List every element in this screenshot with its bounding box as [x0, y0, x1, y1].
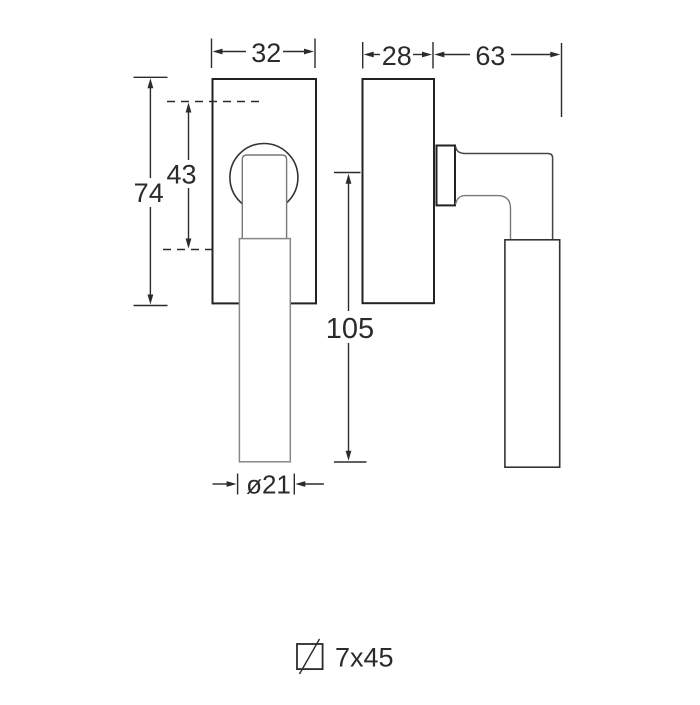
dimension 43 line and arrows [188, 110, 190, 241]
dimension o21 extension ticks [238, 474, 295, 495]
dimension 32 arrows and line [219, 51, 308, 53]
svg-text:7x45: 7x45 [335, 643, 394, 673]
handle grip side [505, 240, 560, 467]
handle arm side top outline [456, 147, 553, 240]
dimension 74 extension ticks [134, 77, 168, 305]
dimension 28 arrows and line [370, 54, 425, 56]
dimension 28 extension ticks [363, 42, 433, 69]
dimension 105 line and arrows [348, 182, 350, 453]
handle stem front [239, 239, 290, 462]
dimension 105 extension ticks [334, 173, 367, 463]
svg-text:105: 105 [326, 313, 374, 345]
svg-text:63: 63 [475, 41, 505, 71]
handle neck front [242, 155, 286, 240]
handle flange side [437, 146, 456, 206]
dimension 63 extension tick right [561, 43, 563, 117]
svg-text:32: 32 [251, 38, 281, 68]
dimension 43 dashed extension bottom [163, 249, 216, 251]
dimension 74 line and arrows [149, 86, 151, 297]
dimension 63 arrows and line [441, 54, 553, 56]
handle arm side bottom outline [456, 196, 511, 239]
svg-text:43: 43 [166, 159, 196, 189]
legend square diagonal [300, 639, 320, 674]
dimension o21 outside arrows [213, 483, 324, 485]
svg-text:28: 28 [382, 41, 412, 71]
dimension 43 dashed extension top [167, 101, 260, 103]
svg-text:ø21: ø21 [246, 470, 291, 500]
dimension 32 extension ticks [212, 39, 316, 69]
side view plate [363, 79, 435, 303]
svg-text:74: 74 [134, 178, 164, 208]
handle rose circle [230, 144, 298, 212]
front view plate [213, 79, 317, 303]
legend spindle square symbol [297, 644, 323, 669]
